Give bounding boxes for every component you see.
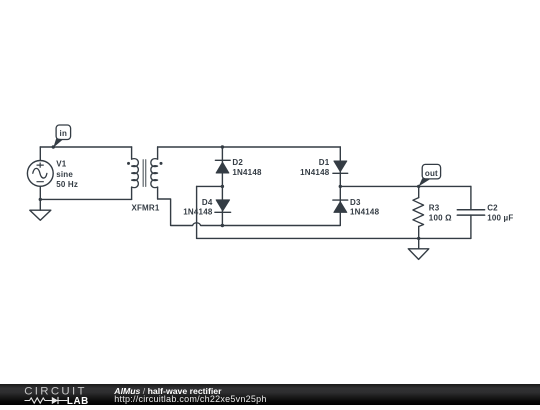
svg-text:in: in [60, 129, 68, 138]
diode D1 [333, 161, 348, 173]
svg-text:50 Hz: 50 Hz [56, 180, 78, 189]
svg-text:XFMR1: XFMR1 [131, 204, 159, 213]
transformer XFMR1 [127, 147, 163, 199]
wire V1 bottom stem [39, 186, 41, 210]
wire top rail left (V1 to XFMR1 primary) [40, 146, 131, 148]
resistor R3 [413, 186, 424, 238]
voltage source V1 [27, 161, 53, 187]
svg-text:1N4148: 1N4148 [350, 208, 380, 217]
wire branch vertical (D2/D4 node to bottom rail) [196, 186, 198, 238]
wire bottom rail left (V1 to XFMR1 primary) [40, 198, 131, 200]
footer url text [114, 394, 266, 404]
svg-text:100 Ω: 100 Ω [429, 214, 452, 223]
svg-text:R3: R3 [429, 204, 440, 213]
wire ground stem right [418, 238, 420, 248]
diode D2 [215, 160, 230, 173]
svg-text:D4: D4 [202, 198, 213, 207]
wire D1/D3 branch vertical [339, 147, 341, 186]
diode D3 [333, 200, 348, 212]
node in junction dot [52, 145, 55, 148]
wire secondary bottom to lower rail (with hop) [158, 199, 341, 226]
footer title text [114, 386, 221, 396]
svg-text:C2: C2 [487, 204, 498, 213]
wire top rail right (XFMR1 secondary to D1) [158, 146, 341, 148]
net flag in [53, 125, 70, 148]
node D1/D3 junction dot [339, 185, 342, 188]
CircuitLab logo [0, 384, 100, 406]
ground GND1 [30, 210, 51, 220]
capacitor C2 [457, 186, 484, 238]
svg-text:1N4148: 1N4148 [232, 168, 262, 177]
svg-text:D1: D1 [319, 158, 330, 167]
wire D3 vertical [339, 186, 341, 212]
node D2 top junction dot [221, 145, 224, 148]
svg-text:1N4148: 1N4148 [300, 168, 330, 177]
svg-text:100 µF: 100 µF [487, 214, 513, 223]
node R3 bottom junction dot [417, 237, 420, 240]
svg-text:V1: V1 [56, 160, 67, 169]
node out junction dot [417, 185, 420, 188]
svg-text:out: out [425, 169, 438, 178]
wire V1 top riser [39, 147, 41, 161]
wire D2/D4 branch vertical [221, 147, 223, 226]
node V1 ground junction dot [39, 198, 42, 201]
svg-text:LAB: LAB [67, 395, 89, 405]
node D4 bottom junction dot [221, 224, 224, 227]
svg-text:D3: D3 [350, 198, 361, 207]
svg-text:D2: D2 [232, 158, 243, 167]
wire out rail (D1/D3 junction to C2) [340, 185, 471, 187]
wire bottom rail right [197, 237, 471, 239]
ground GND2 [408, 249, 429, 260]
svg-text:1N4148: 1N4148 [183, 208, 213, 217]
svg-text:sine: sine [56, 170, 73, 179]
wire link to D2/D4 junction [197, 185, 223, 187]
node D2/D4 junction dot [221, 185, 224, 188]
footer bar [0, 384, 540, 405]
net flag out [419, 164, 441, 186]
diode D4 [215, 200, 231, 212]
